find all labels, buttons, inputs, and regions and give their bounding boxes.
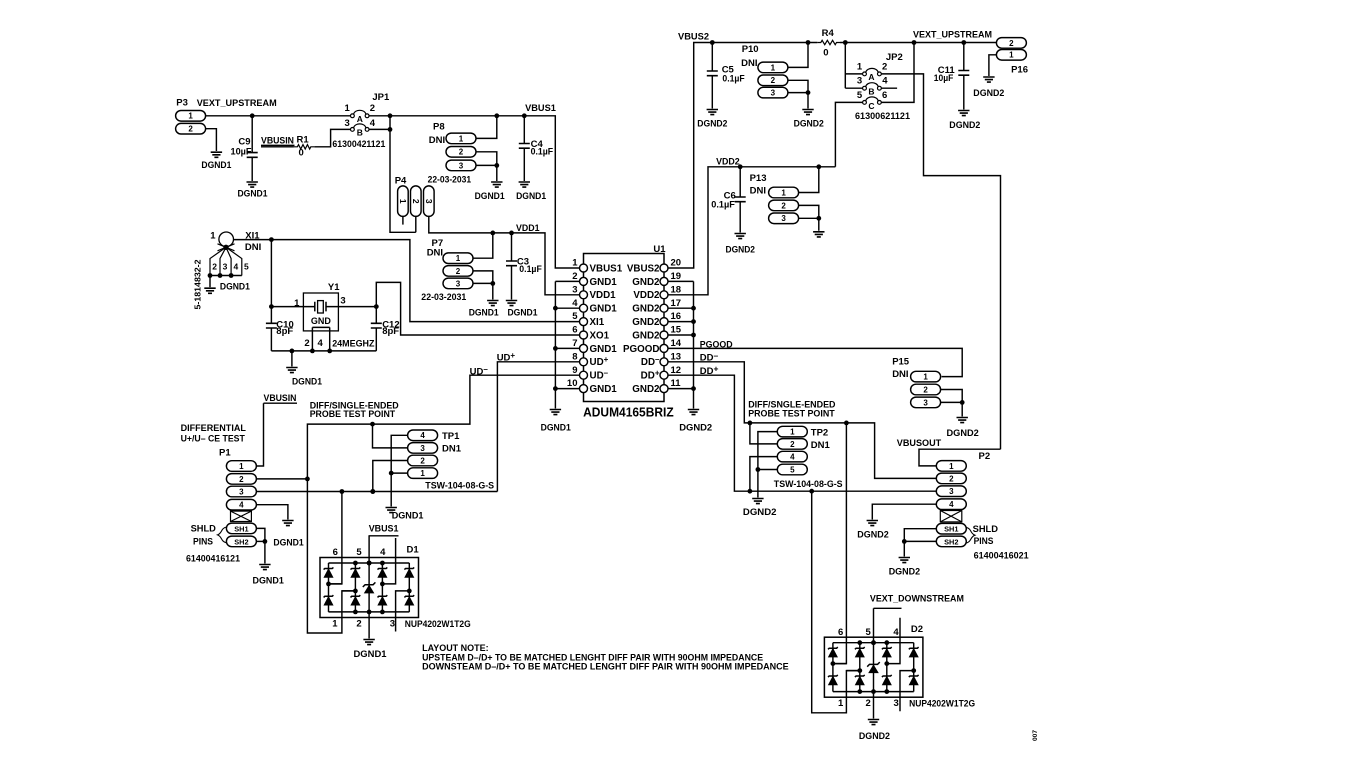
svg-text:DGND1: DGND1 — [292, 377, 323, 388]
svg-text:19: 19 — [671, 271, 682, 282]
wire TP2 pin2 branch — [750, 423, 777, 444]
svg-text:13: 13 — [671, 351, 682, 362]
wire U1 left GND1 bus — [553, 281, 580, 408]
wire VEXT_UPSTREAM main rail — [206, 113, 580, 268]
svg-text:VDD2: VDD2 — [633, 290, 660, 301]
svg-text:22-03-2031: 22-03-2031 — [421, 292, 466, 302]
svg-text:VBUS2: VBUS2 — [627, 263, 660, 274]
jumper JP1 — [332, 92, 390, 149]
svg-text:DNI: DNI — [741, 58, 757, 69]
label DIFFERENTIAL test — [181, 423, 246, 445]
svg-text:1: 1 — [838, 698, 844, 709]
ground at P13 — [813, 232, 824, 237]
connector TP1 — [408, 430, 494, 491]
ground DGND2 at D2 — [859, 720, 890, 743]
wire DD- net — [668, 362, 936, 479]
svg-text:DGND1: DGND1 — [516, 191, 547, 202]
svg-text:6: 6 — [333, 547, 338, 558]
svg-text:VBUSIN: VBUSIN — [264, 393, 297, 404]
svg-text:24MEGHZ: 24MEGHZ — [332, 338, 375, 348]
wire Y1 pin1 node — [269, 304, 303, 309]
svg-text:D1: D1 — [407, 544, 420, 555]
svg-text:VBUS1: VBUS1 — [525, 103, 556, 114]
wire TP1 pin2 down — [370, 461, 407, 494]
svg-text:P3: P3 — [176, 98, 188, 109]
svg-text:C: C — [868, 101, 874, 111]
ground DGND2 at P15 — [947, 418, 979, 440]
svg-text:Y1: Y1 — [328, 282, 340, 293]
svg-text:3: 3 — [424, 199, 434, 204]
svg-text:VBUS1: VBUS1 — [369, 524, 399, 535]
ground DGND1 at P7 — [469, 301, 500, 319]
svg-text:5: 5 — [790, 465, 795, 474]
svg-text:1: 1 — [857, 61, 863, 72]
wire D1 pin5 VBUS1 drop — [367, 536, 372, 566]
resistor R1 — [294, 135, 314, 159]
wire R1 to JP1 pin3 — [314, 129, 350, 146]
svg-text:GND: GND — [311, 316, 332, 326]
svg-text:1: 1 — [771, 63, 776, 72]
svg-text:5: 5 — [572, 311, 578, 322]
svg-text:3: 3 — [459, 161, 464, 170]
svg-text:B: B — [868, 87, 874, 97]
svg-text:61400416121: 61400416121 — [186, 553, 240, 563]
svg-text:14: 14 — [671, 338, 682, 349]
svg-text:61300421121: 61300421121 — [332, 139, 385, 149]
label sheet number 007 — [1032, 730, 1039, 741]
svg-text:VBUSOUT: VBUSOUT — [897, 438, 942, 449]
wire crystal ground rail — [271, 349, 376, 367]
svg-text:DGND2: DGND2 — [679, 422, 712, 433]
net label VBUSOUT — [897, 438, 942, 449]
wire D2 pin1 riser — [812, 491, 860, 713]
wire P10 pin1 to VBUS2 — [788, 43, 808, 68]
connector P8 DNI header — [428, 122, 476, 185]
svg-text:TSW-104-08-G-S: TSW-104-08-G-S — [425, 481, 494, 491]
svg-text:DIFFERENTIAL: DIFFERENTIAL — [181, 423, 246, 434]
wire P16 pin1 to ground — [989, 55, 997, 76]
ground DGND1 at C3 — [506, 301, 538, 319]
svg-text:DNI: DNI — [245, 242, 261, 253]
svg-text:P8: P8 — [433, 122, 445, 133]
svg-text:4: 4 — [882, 76, 888, 87]
svg-text:SH2: SH2 — [234, 537, 248, 546]
ground DGND1 at TP1 — [386, 508, 425, 522]
wire JP1 pin4 to P4 pin2 — [369, 116, 416, 233]
svg-text:1: 1 — [420, 469, 425, 478]
svg-text:10: 10 — [567, 378, 578, 389]
svg-text:DGND2: DGND2 — [726, 244, 756, 255]
connector TP2 — [774, 426, 843, 489]
svg-text:2: 2 — [420, 456, 425, 465]
svg-text:ADUM4165BRIZ: ADUM4165BRIZ — [583, 405, 674, 420]
svg-text:2: 2 — [239, 475, 244, 484]
svg-text:0.1µF: 0.1µF — [519, 264, 542, 275]
svg-text:3: 3 — [239, 487, 244, 496]
svg-text:2: 2 — [923, 385, 928, 394]
svg-text:3: 3 — [456, 279, 461, 288]
svg-text:DGND1: DGND1 — [354, 649, 388, 660]
svg-text:DGND1: DGND1 — [508, 307, 539, 318]
svg-text:11: 11 — [671, 378, 682, 389]
crystal Y1 — [294, 282, 375, 349]
ground DGND2 at C11 — [949, 111, 980, 132]
wire P13 pin1 to VDD2 — [799, 167, 819, 193]
svg-text:U+/U– CE TEST: U+/U– CE TEST — [181, 434, 245, 445]
net label VDD1 — [516, 223, 540, 234]
svg-text:P13: P13 — [750, 173, 767, 184]
svg-text:DGND2: DGND2 — [794, 118, 824, 129]
svg-text:XI1: XI1 — [590, 317, 605, 328]
svg-text:DNI: DNI — [429, 135, 445, 146]
connector P7 DNI header — [421, 238, 473, 302]
wire P1 pin4 to ground — [257, 505, 288, 520]
wire P8 pin2 pin3 to ground — [476, 152, 499, 181]
wire JP2 pin4 stub — [881, 87, 897, 89]
svg-text:DGND2: DGND2 — [743, 507, 777, 518]
ground DGND1 at C4 — [516, 182, 547, 202]
svg-text:4: 4 — [317, 338, 323, 349]
svg-text:DGND1: DGND1 — [469, 307, 500, 318]
wire D2 pin2 to ground — [873, 692, 875, 719]
svg-text:4: 4 — [949, 500, 954, 509]
wire P7 pin1 to VDD1 — [473, 233, 492, 258]
svg-text:3: 3 — [572, 284, 577, 295]
svg-text:3: 3 — [390, 619, 395, 630]
ground DGND1 at C9 — [238, 182, 269, 199]
wire P2 pin4 to ground — [872, 504, 936, 519]
net label VEXT_UPSTREAM left — [197, 98, 277, 109]
svg-text:1: 1 — [459, 134, 464, 143]
svg-text:10µF: 10µF — [934, 73, 954, 84]
svg-text:6: 6 — [838, 627, 843, 638]
connector P16 — [996, 38, 1028, 76]
svg-text:5-1814832-2: 5-1814832-2 — [194, 259, 203, 310]
svg-text:10µF: 10µF — [231, 146, 252, 157]
svg-text:1: 1 — [239, 462, 244, 471]
svg-text:DGND2: DGND2 — [889, 567, 920, 578]
wire D2 pin6 riser — [833, 423, 847, 664]
wire P10 pin2 pin3 to ground — [788, 80, 810, 108]
wire TP1 pin3 branch — [373, 424, 408, 448]
svg-text:D2: D2 — [911, 624, 923, 635]
svg-text:P10: P10 — [742, 44, 759, 55]
svg-text:1: 1 — [188, 112, 193, 121]
svg-text:DOWNSTEAM D–/D+ TO BE MATCHED: DOWNSTEAM D–/D+ TO BE MATCHED LENGHT DIF… — [422, 662, 789, 672]
diode array D2 — [824, 618, 975, 712]
svg-text:JP1: JP1 — [372, 92, 390, 103]
net label VDD2 — [716, 157, 740, 168]
wire D1 pin2 to ground — [368, 612, 370, 639]
diode array D1 — [320, 538, 471, 632]
capacitor C3 — [506, 233, 542, 300]
net label DD+ — [700, 364, 719, 377]
wire D1 pin6 riser — [329, 492, 342, 584]
svg-text:0.1µF: 0.1µF — [531, 147, 554, 158]
svg-text:DNI: DNI — [892, 369, 908, 380]
svg-text:1: 1 — [398, 199, 408, 204]
resistor R4 — [817, 28, 840, 58]
svg-text:1: 1 — [949, 462, 954, 471]
svg-text:GND1: GND1 — [590, 304, 618, 315]
svg-text:5: 5 — [857, 90, 863, 101]
svg-text:2: 2 — [356, 619, 361, 630]
svg-text:GND2: GND2 — [632, 384, 660, 395]
ground DGND2 at TP2 — [743, 499, 777, 519]
wire P8 pin1 to VBUS1 — [476, 116, 497, 139]
wire JP2 pin2 to VBUSOUT — [881, 74, 1000, 449]
wire JP2 pin5 to VDD2 — [835, 102, 862, 166]
svg-text:20: 20 — [671, 258, 682, 269]
svg-text:2: 2 — [456, 267, 461, 276]
svg-text:PGOOD: PGOOD — [623, 344, 659, 355]
svg-text:8pF: 8pF — [276, 326, 293, 337]
svg-text:PINS: PINS — [974, 536, 994, 546]
label DIFF/SNGLE-ENDED right — [748, 400, 836, 419]
wire VBUS2 rail — [668, 40, 997, 268]
wire Y1 pin2 pin4 leads — [312, 327, 329, 351]
connector P4 — [395, 175, 434, 216]
svg-text:2: 2 — [459, 148, 464, 157]
capacitor C5 — [707, 43, 745, 109]
svg-text:4: 4 — [234, 262, 239, 272]
net label PGOOD — [700, 339, 733, 350]
svg-text:2: 2 — [212, 262, 217, 272]
svg-text:007: 007 — [1032, 730, 1039, 741]
svg-text:GND2: GND2 — [632, 304, 660, 315]
capacitor C9 — [231, 116, 258, 181]
svg-text:JP2: JP2 — [886, 52, 903, 63]
svg-text:DNI: DNI — [427, 248, 443, 259]
svg-text:15: 15 — [671, 325, 682, 336]
svg-text:TSW-104-08-G-S: TSW-104-08-G-S — [774, 479, 843, 489]
net label VBUSIN at R1 — [261, 136, 295, 147]
wire P2 shield to ground — [902, 529, 936, 557]
svg-text:DGND2: DGND2 — [973, 88, 1004, 99]
svg-text:P4: P4 — [395, 175, 407, 186]
svg-text:0.1µF: 0.1µF — [711, 199, 735, 210]
svg-text:1: 1 — [923, 373, 928, 382]
ground DGND1 at P1 shield — [253, 565, 285, 587]
svg-text:1: 1 — [781, 188, 786, 197]
svg-text:8: 8 — [572, 351, 577, 362]
oscillator socket XI1 — [194, 230, 262, 309]
svg-text:1: 1 — [790, 428, 795, 437]
wire JP2 left riser — [845, 43, 862, 89]
svg-text:2: 2 — [188, 125, 193, 134]
svg-text:TP2: TP2 — [811, 428, 828, 439]
wire D2 pin5 drop — [871, 608, 876, 645]
wire P4 pin2 lead — [415, 216, 417, 232]
net label VEXT_DOWNSTREAM — [870, 594, 964, 609]
wire U1 right GND2 bus — [668, 281, 696, 408]
svg-text:DGND1: DGND1 — [238, 188, 269, 199]
svg-text:R4: R4 — [822, 28, 835, 39]
svg-text:P1: P1 — [219, 448, 231, 459]
svg-text:2: 2 — [370, 103, 375, 114]
svg-text:2: 2 — [304, 338, 309, 349]
connector P13 DNI header — [750, 173, 799, 224]
wire P1 shield to ground — [257, 528, 305, 563]
ground DGND2 at P2 pin4 — [857, 521, 888, 541]
svg-text:GND1: GND1 — [590, 344, 618, 355]
svg-text:DGND1: DGND1 — [475, 191, 506, 202]
svg-text:SH2: SH2 — [944, 537, 958, 546]
svg-text:1: 1 — [332, 619, 338, 630]
wire P7 pin2 pin3 to ground — [473, 271, 495, 300]
net label VEXT_UPSTREAM right — [913, 29, 992, 40]
svg-text:1: 1 — [344, 103, 350, 114]
svg-text:DGND1: DGND1 — [253, 575, 285, 586]
ground DGND1 at P8 — [475, 182, 506, 202]
svg-text:0.1µF: 0.1µF — [722, 74, 744, 85]
label DIFF/SINGLE-ENDED left — [310, 401, 399, 420]
wire P13 pin2 pin3 to ground — [799, 205, 822, 230]
connector P3 — [176, 98, 206, 134]
svg-text:3: 3 — [781, 214, 786, 223]
IC U1 ADUM4165BRIZ — [567, 244, 682, 420]
svg-text:VBUS1: VBUS1 — [590, 263, 623, 274]
svg-text:1: 1 — [456, 254, 461, 263]
svg-text:DGND1: DGND1 — [201, 160, 232, 171]
wire XI1 ground stub — [209, 276, 211, 288]
net label VBUS1 at D1 — [369, 524, 400, 536]
svg-text:5: 5 — [356, 547, 362, 558]
svg-text:2: 2 — [949, 474, 954, 483]
svg-text:DGND2: DGND2 — [949, 120, 980, 131]
ground DGND1 at P3 — [201, 152, 232, 171]
svg-text:DN1: DN1 — [442, 444, 462, 455]
svg-text:3: 3 — [894, 698, 899, 709]
wire P15 pin2 pin3 to ground — [941, 390, 965, 417]
svg-text:SH1: SH1 — [234, 524, 248, 533]
svg-text:4: 4 — [572, 298, 578, 309]
net label VBUSIN at P1 — [264, 393, 298, 404]
svg-text:4: 4 — [380, 547, 386, 558]
wire P1 pin1 to VBUSIN — [257, 403, 264, 466]
svg-text:0: 0 — [823, 47, 828, 58]
svg-text:6: 6 — [882, 90, 887, 101]
svg-text:4: 4 — [420, 431, 425, 440]
svg-text:17: 17 — [671, 298, 682, 309]
svg-text:GND2: GND2 — [632, 317, 660, 328]
svg-text:PROBE TEST POINT: PROBE TEST POINT — [310, 409, 396, 419]
svg-text:DGND1: DGND1 — [392, 511, 424, 522]
capacitor C11 — [934, 43, 970, 110]
svg-text:P2: P2 — [979, 451, 991, 462]
svg-text:PROBE TEST POINT: PROBE TEST POINT — [748, 408, 835, 418]
svg-text:VBUS2: VBUS2 — [678, 32, 709, 43]
wire PGOOD net — [668, 348, 962, 376]
svg-text:GND2: GND2 — [632, 330, 660, 341]
svg-text:4: 4 — [893, 627, 899, 638]
svg-text:8pF: 8pF — [382, 326, 399, 337]
svg-text:DGND2: DGND2 — [947, 428, 979, 439]
capacitor C4 — [519, 116, 553, 181]
svg-text:3: 3 — [223, 262, 228, 272]
svg-text:VEXT_DOWNSTREAM: VEXT_DOWNSTREAM — [870, 594, 964, 605]
svg-text:TP1: TP1 — [442, 431, 460, 442]
svg-text:DGND2: DGND2 — [697, 118, 727, 129]
wire VBUSOUT to P2 pin1 — [919, 449, 1001, 466]
ground DGND1 at XI1 — [204, 281, 250, 293]
svg-text:22-03-2031: 22-03-2031 — [428, 174, 472, 184]
svg-text:VEXT_UPSTREAM: VEXT_UPSTREAM — [913, 29, 992, 40]
svg-text:SH1: SH1 — [944, 525, 958, 534]
svg-text:DN1: DN1 — [811, 440, 831, 451]
wire P4 pin1 stub — [402, 216, 404, 224]
wire TP1 pin4 pin1 to ground — [389, 435, 408, 506]
svg-text:1: 1 — [294, 298, 300, 309]
svg-text:GND1: GND1 — [590, 277, 618, 288]
wire P1 pin3 UD+ — [257, 489, 498, 494]
svg-text:B: B — [357, 127, 363, 137]
ground DGND2 at P2 shield — [889, 558, 920, 578]
svg-text:0: 0 — [299, 147, 304, 158]
svg-text:2: 2 — [866, 698, 871, 709]
wire Y1 pin3 to XO1 U1 pin6 — [338, 282, 579, 335]
svg-text:SHLD: SHLD — [973, 524, 999, 534]
svg-text:GND1: GND1 — [590, 384, 618, 395]
net label UD- — [470, 365, 489, 378]
svg-text:P16: P16 — [1011, 64, 1028, 75]
svg-text:GND2: GND2 — [632, 277, 660, 288]
svg-text:VDD2: VDD2 — [716, 157, 740, 168]
jumper JP2 — [855, 52, 910, 121]
svg-text:R1: R1 — [297, 135, 310, 146]
ground DGND2 under U1 — [679, 410, 712, 434]
svg-text:1: 1 — [210, 230, 216, 241]
svg-text:61400416021: 61400416021 — [974, 551, 1029, 561]
svg-text:A: A — [868, 72, 874, 82]
wire UD- net — [305, 375, 580, 633]
svg-text:12: 12 — [671, 365, 682, 376]
svg-text:SHLD: SHLD — [191, 524, 217, 534]
connector P10 DNI header — [741, 44, 788, 98]
net label UD+ — [497, 351, 516, 364]
wire TP2 pin4 down — [750, 457, 777, 492]
svg-text:5: 5 — [866, 627, 872, 638]
svg-text:7: 7 — [572, 338, 577, 349]
svg-text:2: 2 — [572, 271, 577, 282]
svg-text:2: 2 — [882, 61, 887, 72]
connector P2 USB — [936, 451, 1028, 561]
wire P3 pin2 to ground — [206, 129, 217, 151]
svg-text:3: 3 — [344, 118, 349, 129]
wire DD+ net — [668, 375, 936, 493]
svg-text:P15: P15 — [892, 357, 910, 368]
svg-text:6: 6 — [572, 325, 577, 336]
svg-text:3: 3 — [340, 295, 345, 306]
wire UD+ net — [497, 362, 579, 492]
svg-text:2: 2 — [790, 440, 795, 449]
capacitor C10 — [266, 240, 294, 351]
svg-text:VDD1: VDD1 — [590, 290, 617, 301]
wire TP2 pin1 pin5 to ground — [756, 432, 778, 498]
ground DGND1 at D1 — [354, 640, 388, 660]
svg-text:3: 3 — [949, 487, 954, 496]
svg-text:PINS: PINS — [193, 537, 213, 547]
svg-text:16: 16 — [671, 311, 682, 322]
svg-text:XO1: XO1 — [590, 330, 610, 341]
wire P1 pin2 UD- — [257, 478, 308, 480]
ground at P1 pin4 — [282, 521, 293, 526]
svg-text:A: A — [357, 114, 363, 124]
net label VBUS1 top — [525, 103, 556, 114]
svg-text:3: 3 — [771, 89, 776, 98]
wire P4 pin3 to VDD1 — [429, 216, 580, 294]
svg-text:3: 3 — [420, 444, 425, 453]
